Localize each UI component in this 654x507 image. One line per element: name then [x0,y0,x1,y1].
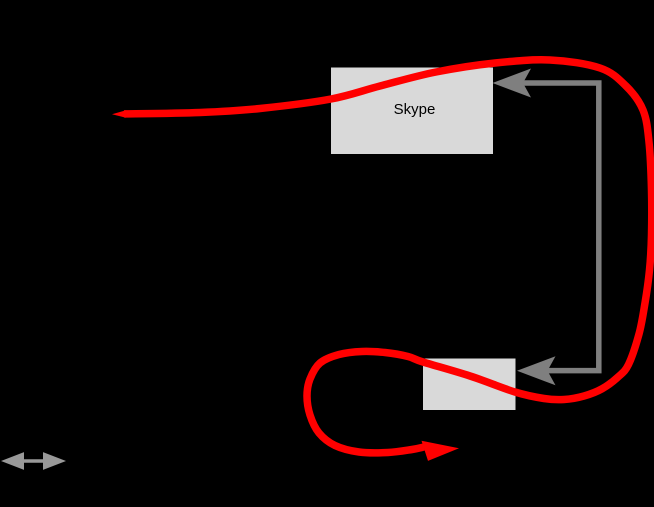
arrowhead into small box (pointing left) [517,356,556,385]
gray connector line (Skype box right, down, into small box) [523,83,599,371]
svg-text:Skype: Skype [394,101,436,118]
Skype box [331,68,493,155]
red arrowhead (end of freehand curve) [422,441,460,461]
small box (bottom) [423,359,516,411]
red freehand curve [124,60,652,453]
red stroke tapered start [112,110,126,118]
arrowhead into Skype box (pointing left) [493,69,532,98]
double-headed arrow (bottom left) [1,452,66,470]
